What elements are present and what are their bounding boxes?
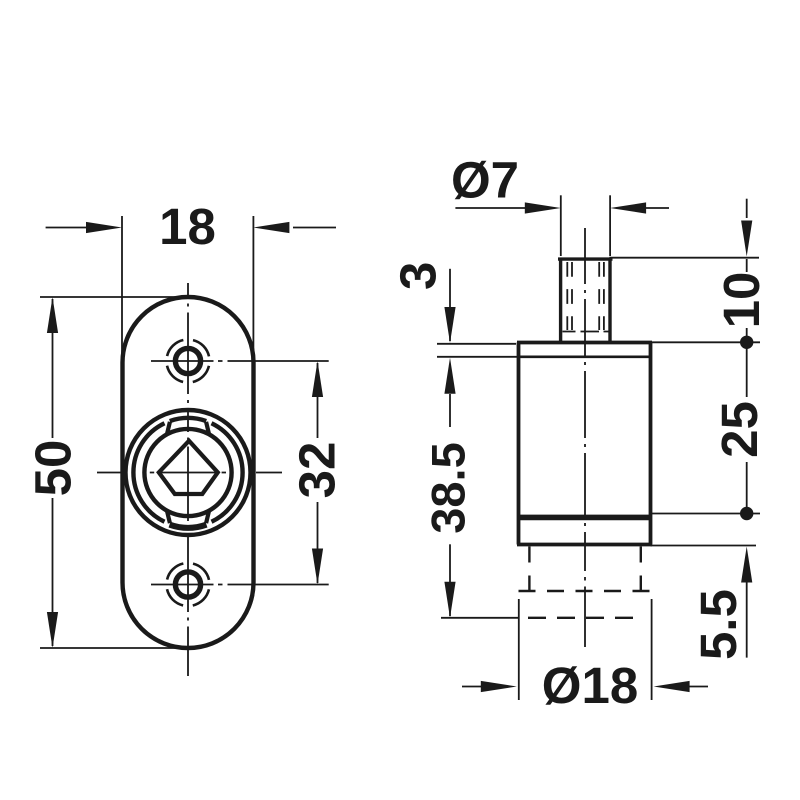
svg-text:18: 18 — [159, 198, 216, 255]
svg-text:3: 3 — [390, 262, 447, 290]
svg-text:25: 25 — [711, 401, 768, 458]
svg-text:5.5: 5.5 — [690, 589, 747, 660]
svg-text:32: 32 — [289, 442, 346, 499]
svg-text:10: 10 — [713, 272, 770, 329]
svg-text:38.5: 38.5 — [422, 442, 475, 533]
svg-text:50: 50 — [25, 440, 82, 497]
svg-text:Ø18: Ø18 — [542, 657, 638, 714]
svg-text:Ø7: Ø7 — [451, 152, 519, 209]
